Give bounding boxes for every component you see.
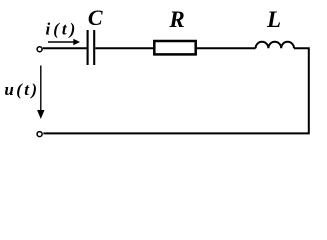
wire: inductor to right side, down and along the bottom: [43, 48, 308, 133]
capacitor C: [88, 30, 95, 65]
voltage arrow u(t): [37, 66, 44, 120]
wire: capacitor to resistor: [95, 47, 154, 49]
svg-text:i(t): i(t): [46, 19, 79, 38]
terminal (bottom node): [37, 132, 42, 137]
wire: resistor to inductor: [197, 47, 256, 49]
inductor L: [256, 42, 294, 48]
svg-text:C: C: [88, 5, 103, 30]
svg-text:L: L: [266, 7, 281, 32]
wire: top terminal to capacitor: [43, 47, 87, 49]
current arrow i(t): [48, 39, 80, 45]
resistor R: [154, 41, 195, 54]
svg-text:R: R: [168, 7, 184, 32]
terminal (top input node): [37, 47, 42, 52]
svg-text:u(t): u(t): [4, 80, 39, 99]
